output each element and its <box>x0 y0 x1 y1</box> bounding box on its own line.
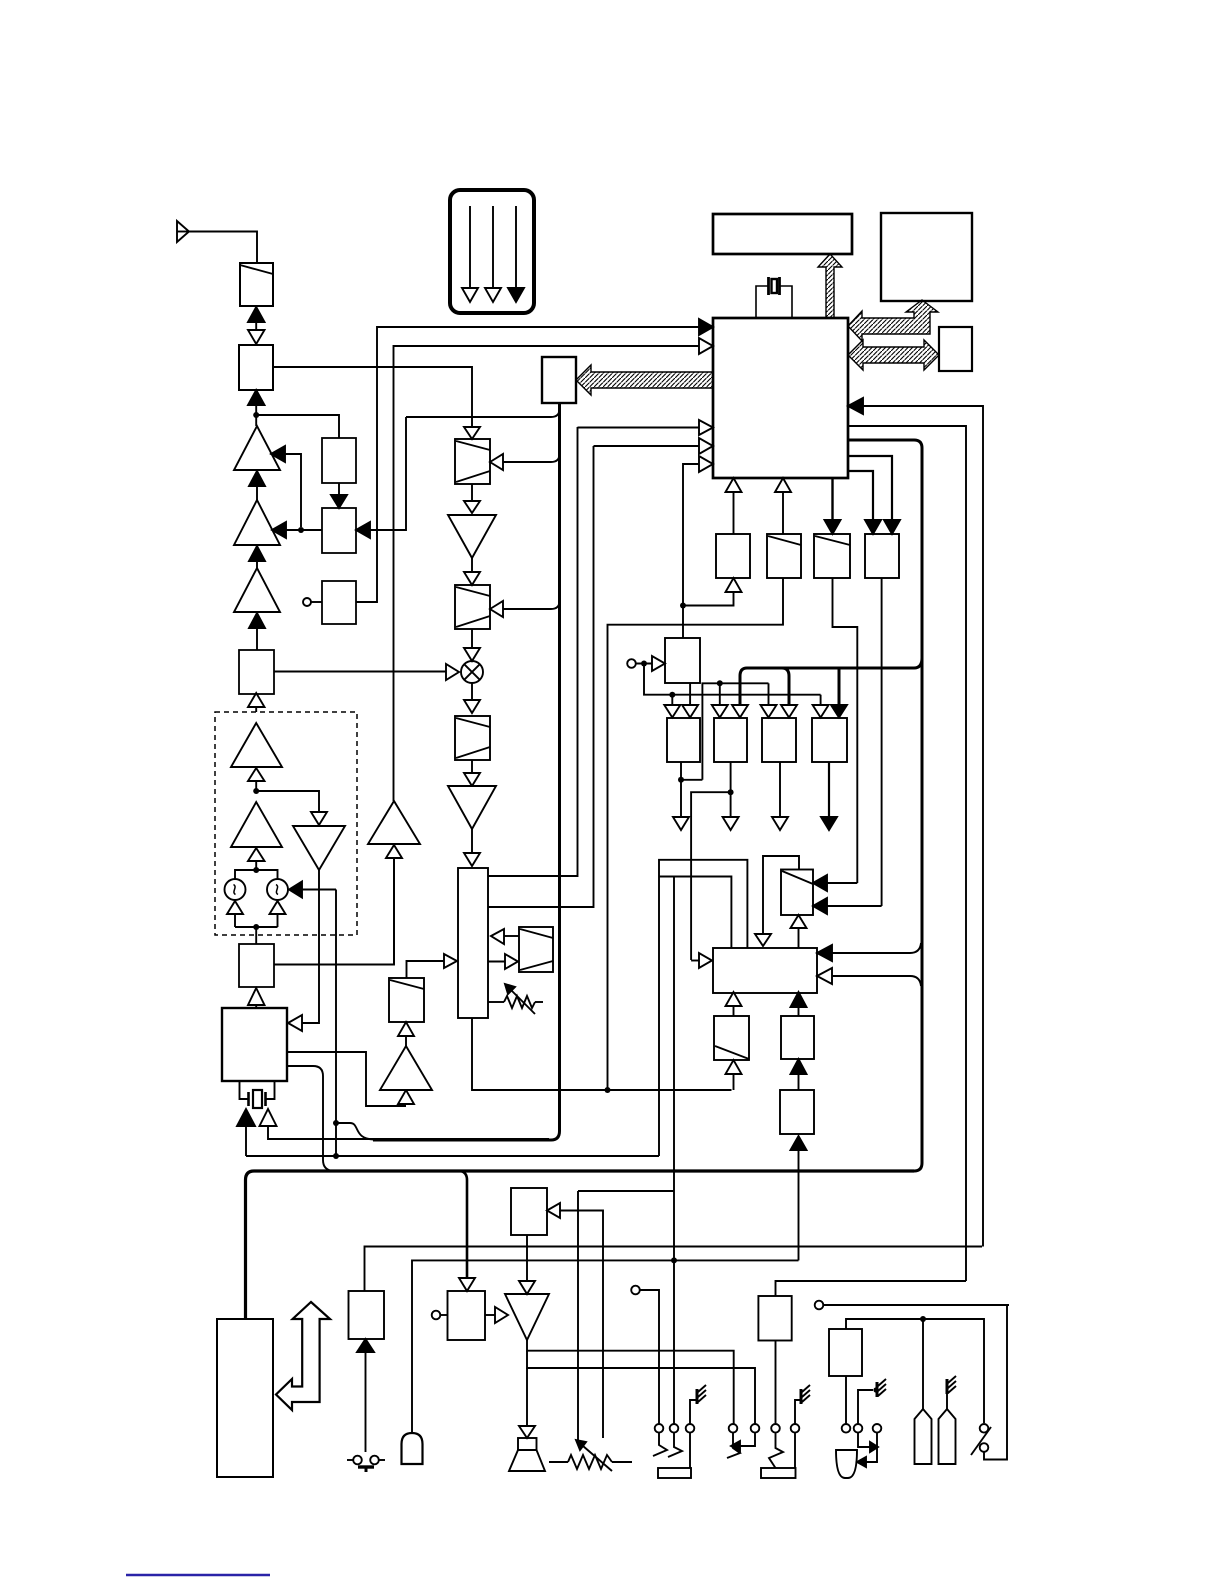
filled up arrow box Y to box X <box>791 1059 807 1090</box>
hollow right arrow into box V left <box>691 953 712 968</box>
filled left arrow mute into box V right <box>817 943 921 961</box>
wire R4 output down right column <box>881 578 883 906</box>
wire PLL buffer to RX buffer amp <box>274 859 394 965</box>
node oscillator output join <box>235 924 278 944</box>
jumper box U top to box V <box>763 856 799 934</box>
external power terminal <box>815 1301 1007 1310</box>
hollow left arrow AGC into box E <box>490 454 560 470</box>
chassis ground cell 2 <box>947 1376 956 1394</box>
filled up arrow into switch <box>248 307 265 331</box>
regulator box R3 <box>814 534 850 578</box>
audio PA inverted triangle <box>505 1294 549 1340</box>
external DC jack contacts <box>857 1433 878 1467</box>
thick drop to audio reg box P <box>460 1171 467 1278</box>
chassis ground DC jack <box>858 1379 886 1424</box>
mic mute box X <box>781 1016 814 1059</box>
main CPU IC box <box>713 318 848 478</box>
audio IC box V <box>713 948 817 993</box>
hollow up arrow below X2 <box>270 901 286 927</box>
filled up arrow predriver input <box>249 613 265 650</box>
external DC jack circles <box>842 1424 882 1433</box>
hollow up arrow R1 to CPU <box>726 478 742 534</box>
TX buffer box <box>239 650 274 694</box>
hollow down arrow T2 out <box>723 792 739 830</box>
TXVCC switch box F <box>542 357 576 403</box>
hollow right arrow into mixer <box>446 664 459 680</box>
hollow down arrows into T1 <box>664 705 698 718</box>
SP jack contacts <box>653 1433 691 1478</box>
VCO buffer amp <box>231 723 282 767</box>
hollow down arrow T1 out <box>673 780 689 830</box>
hollow down arrow below box E <box>464 484 480 513</box>
wire box S bottom to T1 <box>689 683 691 705</box>
bridge wire to box V top pin1 <box>659 860 747 1156</box>
blue rule bottom left <box>126 1574 270 1576</box>
PTT line vertical <box>335 890 337 1157</box>
hollow up arrow into PLL buffer <box>248 988 265 1008</box>
hollow left arrow into PLL from inverted buffer <box>288 870 319 1031</box>
regulator box R4 <box>865 534 899 578</box>
hollow up arrow VCO amp input <box>248 848 265 870</box>
AF control box Q <box>511 1188 547 1235</box>
battery sense box S <box>665 638 700 683</box>
MIC jack contacts <box>727 1433 796 1478</box>
IF amp inverted triangle <box>448 786 496 829</box>
inverted buffer amp <box>293 826 345 870</box>
filled down arrow APC to driver control box <box>331 483 347 508</box>
TX filter box N <box>389 978 424 1022</box>
MIC jack circles <box>729 1424 800 1433</box>
hollow right arrow RSSI into CPU <box>578 420 714 435</box>
speaker feed line <box>527 1351 755 1424</box>
RX amp inverted triangle <box>448 515 496 558</box>
switch box T1 <box>667 718 700 762</box>
mixer MIX1 <box>461 661 483 683</box>
wire VCO junction to comparator amp <box>256 791 319 812</box>
squelch preset VR <box>488 984 543 1014</box>
switch box T4 <box>812 718 847 762</box>
hollow left arrow into box Q <box>547 1203 603 1438</box>
chassis ground SP jack <box>690 1385 706 1424</box>
charge direction outline arrows <box>276 1302 330 1410</box>
antenna ANT <box>177 221 189 242</box>
wire antenna to antenna switch <box>189 232 257 264</box>
drop line B to T4 <box>820 695 822 705</box>
SP jack circles <box>655 1424 695 1433</box>
hollow right arrow IF IC to box J <box>488 954 518 969</box>
battery cell 1 <box>915 1319 932 1464</box>
hollow up arrow to PLL crystal <box>260 1109 549 1139</box>
hollow and filled down arrows into T4 <box>813 705 847 718</box>
hollow right arrow into IF IC from ceramic filter <box>407 954 458 978</box>
VCO amp <box>231 802 282 847</box>
power switch SW <box>971 1305 1009 1460</box>
node TX junction <box>253 412 259 418</box>
condenser microphone <box>402 1260 799 1464</box>
hollow up arrow box W to box V <box>726 992 742 1016</box>
hollow left arrow into box V right lower <box>817 968 921 986</box>
wires junction to oscillators <box>235 870 278 879</box>
node battery branch <box>920 1316 926 1322</box>
hollow up arrow R2 to CPU <box>775 478 791 534</box>
PLL IC box <box>222 1008 287 1081</box>
wire CPU to R4 pin1 <box>848 456 900 534</box>
filled up arrow into box Y <box>791 1136 807 1260</box>
hatched wide arrow CPU to TXVCC box F <box>576 365 713 395</box>
hollow right arrow AF into CPU <box>699 338 713 354</box>
filled up arrow PTT to PLL crystal <box>237 1109 255 1156</box>
filled up arrow box X to box V <box>791 992 807 1016</box>
hollow up arrow into box W <box>726 1060 742 1090</box>
power switch line <box>846 1319 984 1423</box>
node line A T2 branch <box>717 680 723 705</box>
chassis ground MIC jack <box>795 1385 810 1424</box>
oscillator X2 <box>267 879 288 900</box>
battery cell 2 <box>939 1383 956 1464</box>
supply line B lower <box>644 664 821 695</box>
hollow down arrow into audio reg box P <box>459 1278 475 1291</box>
filled up arrow below charger <box>357 1339 374 1452</box>
filled right arrow RX signal into CPU <box>699 319 713 335</box>
node T1 output junction <box>678 762 702 783</box>
hollow up arrow buffer input <box>248 693 265 712</box>
thick TX control line <box>373 403 560 1140</box>
mic amp6 <box>368 801 420 844</box>
antenna switch/filter box <box>240 263 273 306</box>
filled left arrow into driver control from right <box>356 417 406 538</box>
supply line to charger <box>365 1247 983 1292</box>
wire IF IC det out <box>472 1018 732 1090</box>
supply line A upper <box>702 683 768 780</box>
TX buffer amp7 <box>380 1046 432 1090</box>
power control box Z <box>829 1329 862 1424</box>
wire volume line to jack column <box>578 1190 674 1192</box>
PLL reference crystal <box>240 1081 275 1108</box>
audio PA output line <box>527 1340 734 1424</box>
EEPROM box <box>939 327 972 371</box>
thick TX switched segment <box>373 1138 549 1141</box>
hollow right arrow DET into CPU <box>594 438 714 454</box>
wire IF IC to IC pin DET <box>488 446 594 907</box>
node VCO output junction <box>253 788 259 794</box>
wire CPU to R4 pin2 <box>848 471 881 534</box>
wire PLL to TX buffer amp7 <box>287 1052 406 1106</box>
hollow right arrow into box S <box>652 656 665 671</box>
bridge wire to box V top pin2 <box>659 877 731 1425</box>
ceramic filter box J <box>519 927 553 972</box>
filled left arrow into PA <box>271 446 301 527</box>
hollow down arrow into RX attenuator <box>464 427 480 439</box>
switch box T2 <box>714 718 747 762</box>
legend box <box>450 190 534 313</box>
external DC jack dome <box>836 1450 857 1478</box>
dashed VCO block enclosure <box>215 712 357 935</box>
audio regulator box P <box>432 1291 485 1340</box>
node PTT branch lower <box>333 1153 339 1159</box>
legend arrow TX hollow <box>485 206 501 302</box>
hollow right arrow box P to audio PA <box>485 1307 508 1323</box>
wire junction to APC box <box>256 415 339 438</box>
hollow down arrow into IF IC <box>464 829 480 866</box>
hollow down arrow into audio PA <box>519 1235 535 1294</box>
hollow down arrow T3 out <box>772 762 788 830</box>
filled left arrow into CPU right edge <box>848 398 983 1247</box>
hollow down arrow below box I <box>464 760 480 786</box>
hollow up arrow box V to box U <box>791 915 807 948</box>
thick wire CPU power control <box>848 440 922 1171</box>
TX predriver Q3 <box>234 568 280 612</box>
RX attenuator box G <box>455 585 490 629</box>
filled up arrow driver input <box>249 546 265 568</box>
internal external SP terminal <box>631 1286 659 1424</box>
filled left arrow into driver <box>272 522 322 538</box>
node T2 output junction <box>691 762 734 960</box>
hollow down arrow below RX amp <box>464 558 480 585</box>
AF line IC to amp6 <box>394 346 700 801</box>
hollow down arrow below mixer <box>464 683 480 713</box>
hollow down arrows into T2 <box>712 705 748 718</box>
filled down arrow CPU to R3 <box>825 478 841 534</box>
power key switch <box>347 1456 385 1472</box>
hollow down arrow into inverted buffer <box>311 812 327 825</box>
node det out junction <box>605 1087 611 1093</box>
hollow right arrow into CPU lowest <box>683 456 713 606</box>
crystal supply line <box>246 1155 659 1157</box>
IF system IC tall box <box>458 868 488 1018</box>
filled left arrow into box U pin1 <box>813 875 857 891</box>
key matrix big box <box>881 213 972 301</box>
terminal circle battery sense <box>627 659 652 668</box>
AF filter box W <box>714 1016 749 1060</box>
charger box <box>349 1291 385 1339</box>
hatched up arrow CPU to display <box>818 254 842 318</box>
node CPU sense junction <box>680 603 686 639</box>
regulator box R2 <box>767 534 801 578</box>
detector out box C <box>303 581 356 624</box>
node sense junction <box>641 661 647 667</box>
hollow up arrow below X1 <box>227 901 243 927</box>
hollow up arrow into amp7 <box>398 1090 414 1104</box>
battery pack tall box <box>217 1319 273 1477</box>
node line B T1 branch <box>669 692 675 705</box>
drop line A to T3 <box>768 683 770 705</box>
thick battery supply bus <box>246 1171 915 1319</box>
hollow down arrows into T3 <box>761 705 798 718</box>
RX attenuator box E <box>455 439 490 484</box>
wire to thick TX line <box>406 409 560 417</box>
mic amp box Y <box>780 1090 814 1134</box>
duplexer box <box>239 345 273 390</box>
hollow left arrow AGC into box G <box>490 601 560 617</box>
hollow down arrow into duplexer <box>248 330 265 344</box>
wire PLL out to main bus <box>287 1066 333 1171</box>
MIC control box AA <box>758 1296 791 1424</box>
TX driver Q2 <box>234 500 280 545</box>
driver control box <box>322 508 356 553</box>
hollow up arrow into R1 bottom <box>683 578 742 606</box>
switch box T3 <box>762 718 796 762</box>
IF filter box I <box>455 716 490 760</box>
filled up arrow PA input <box>249 471 265 500</box>
hollow down arrow below box G <box>464 629 480 661</box>
wire buffer to mixer <box>274 671 446 673</box>
wire R2 regulator output line <box>608 578 784 1090</box>
legend arrow common filled <box>508 206 524 302</box>
volume control VR <box>549 1191 632 1471</box>
filled down arrow T4 out <box>821 762 837 830</box>
hollow down arrow into box V top <box>755 934 771 946</box>
wire CPU out to audio mute line <box>848 426 966 1281</box>
wire IF IC to IC pin RSSI <box>488 427 578 876</box>
hatched L arrow CPU to key matrix <box>848 300 938 341</box>
node driver input junction <box>298 527 304 533</box>
hollow up arrow amp6 input <box>386 845 402 965</box>
node oscillator junction <box>253 867 259 873</box>
oscillator X1 <box>225 879 246 900</box>
node mic line junction <box>671 1257 677 1263</box>
filled left arrow into box U pin2 <box>813 898 882 914</box>
mute line to MIC control box AA <box>776 1281 967 1296</box>
display unit wide box <box>713 214 852 254</box>
hollow up arrow VCO buffer input <box>248 768 265 791</box>
wire R3 output down right column <box>833 578 858 883</box>
APC box <box>322 438 356 483</box>
wire duplexer to RX filter E <box>273 367 472 427</box>
detector filter box U <box>781 870 813 916</box>
PLL buffer box <box>239 944 274 987</box>
legend arrow RX hollow <box>462 206 478 302</box>
speaker SP <box>509 1438 545 1471</box>
hollow left arrow box J to IF IC <box>491 929 519 944</box>
CPU crystal <box>756 277 792 318</box>
RX signal line to IC <box>356 327 699 602</box>
thick 8V TX bus <box>740 658 922 705</box>
hatched double arrow CPU to EEPROM <box>848 340 939 370</box>
node PTT branch upper <box>333 1120 374 1140</box>
TX power amp Q1 <box>234 426 280 470</box>
hollow down arrow into speaker <box>519 1368 535 1438</box>
filled left arrow into oscillator X2 <box>289 882 336 898</box>
regulator box R1 <box>716 534 750 578</box>
filled up arrow below duplexer <box>248 390 265 426</box>
hollow up arrow amp7 to box N <box>398 1022 414 1046</box>
